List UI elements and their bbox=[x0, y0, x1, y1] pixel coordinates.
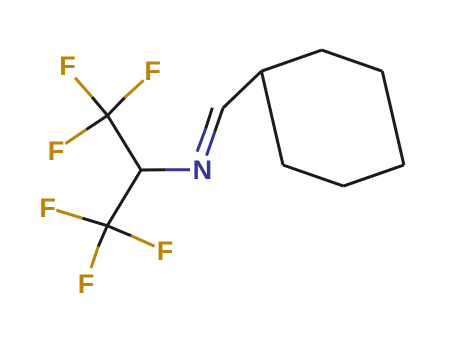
bond C(upper CF3)-C(central) bbox=[108, 116, 142, 171]
atom label F2 bbox=[144, 58, 161, 85]
bond C(central)-N black half bbox=[141, 168, 165, 171]
atom label F3 bbox=[48, 138, 65, 165]
bond C(lower CF3)-C(central) bbox=[107, 170, 141, 226]
bond F6-C black half bbox=[107, 226, 131, 236]
bond F4-C gold half bbox=[56, 210, 82, 218]
wire skeleton black bbox=[82, 50, 404, 247]
bond C2=N main black half bbox=[215, 108, 223, 132]
atom label F4 bbox=[39, 195, 56, 222]
bond C2=N inner black half bbox=[206, 108, 213, 129]
bond F6-C gold half bbox=[131, 236, 154, 246]
ring edge C3-C4 bbox=[261, 50, 321, 71]
bond F1-C gold half bbox=[75, 78, 92, 97]
bond C-N blue half bbox=[165, 168, 190, 171]
bond F3-C gold half bbox=[65, 130, 86, 144]
bond C2=N inner blue half bbox=[197, 129, 206, 152]
ring edge C8-C3 bbox=[261, 71, 283, 165]
bond C2=N main blue half bbox=[207, 132, 215, 156]
atom label F1 bbox=[59, 53, 76, 80]
bond F3-C black half bbox=[86, 116, 107, 130]
ring edge C6-C7 bbox=[344, 165, 404, 186]
atom label F5 bbox=[78, 271, 95, 298]
bond F5-C gold half bbox=[91, 247, 98, 268]
bond F5-C black half bbox=[98, 226, 107, 247]
bond F2-C black half bbox=[108, 98, 125, 116]
bond F1-C black half bbox=[92, 97, 108, 116]
wire gold F half-bonds bbox=[56, 78, 154, 268]
wire blue N half-bonds bbox=[165, 129, 214, 170]
ring edge C7-C8 bbox=[283, 165, 344, 186]
atom label N bbox=[193, 157, 213, 184]
bond F4-C black half bbox=[82, 218, 107, 226]
ring edge C5-C6 bbox=[382, 71, 404, 165]
atom label F6 bbox=[157, 238, 174, 265]
ring edge C4-C5 bbox=[322, 50, 383, 71]
bond C2-C3 bbox=[223, 71, 261, 108]
bond F2-C gold half bbox=[125, 80, 144, 97]
